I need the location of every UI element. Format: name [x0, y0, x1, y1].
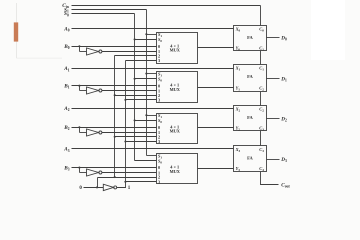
wire B3 branch down to inverter — [79, 168, 81, 173]
svg-text:A1: A1 — [63, 66, 69, 72]
wire into inverter U2 — [80, 90, 87, 92]
full adder FA1 — [234, 65, 267, 92]
wire into inverter U4 — [80, 172, 87, 174]
wire S1 tap to MUX2 — [147, 73, 157, 75]
wire sum output D2 — [267, 118, 280, 120]
wire B0 branch down to inverter — [79, 47, 81, 52]
junction 1-bus / MUX2 — [124, 99, 126, 101]
wire 0-bus tap to MUX1 input 2 — [115, 55, 157, 57]
white panel top right — [311, 0, 345, 60]
wire 1-bus tap to MUX3 input 3 — [126, 141, 157, 143]
mux M1 4x1 MUX — [157, 32, 198, 64]
wire A3 to FA3 X input — [72, 148, 234, 150]
svg-text:C0: C0 — [259, 27, 264, 33]
wire carry C3 FA2 to FA3 — [260, 131, 262, 146]
wire inverter out up to 1-bus — [117, 182, 126, 188]
wire sum output D1 — [267, 78, 280, 80]
junction 0-bus / MUX2 — [114, 94, 116, 96]
wire 1-bus tap to MUX1 input 3 — [126, 60, 157, 62]
inverter U1 (B0') — [87, 48, 102, 55]
svg-text:0: 0 — [79, 186, 82, 191]
wire S1 tap to MUX3 — [147, 115, 157, 117]
svg-text:X3: X3 — [235, 147, 241, 153]
svg-text:X1: X1 — [235, 66, 241, 72]
wire B2 to MUX3 input 0 — [72, 127, 157, 129]
wire B2' to MUX3 input 1 — [102, 132, 157, 134]
wire S0 bus vertical — [134, 14, 136, 161]
wire Cin vertical to FA1 carry-in — [260, 6, 262, 26]
wire MUX1 output to FA0 Y input — [198, 47, 234, 49]
svg-text:C1: C1 — [259, 66, 264, 72]
svg-text:S0: S0 — [158, 118, 162, 124]
wire sum output D3 — [267, 159, 280, 161]
wire B0' to MUX1 input 1 — [102, 51, 157, 53]
svg-text:B2: B2 — [63, 125, 69, 131]
wire S0 tap to MUX1 — [135, 39, 157, 41]
wire A1 to FA1 X input — [72, 68, 234, 70]
wire S1 bus vertical — [146, 10, 148, 156]
wire 0 branch up to MUX4 row — [97, 178, 99, 188]
svg-text:S0: S0 — [158, 37, 162, 43]
svg-text:FA: FA — [247, 35, 253, 40]
wire 0-bus tap to MUX4 input 2 — [98, 177, 157, 179]
svg-text:3: 3 — [158, 179, 160, 184]
wire S1 horizontal — [72, 9, 147, 11]
svg-text:D1: D1 — [280, 77, 287, 83]
svg-text:3: 3 — [158, 98, 160, 103]
inverter U3 (B2') — [87, 129, 102, 136]
svg-text:MUX: MUX — [170, 169, 181, 174]
inverter U5 (makes constant 1) — [103, 184, 116, 190]
svg-text:X2: X2 — [235, 106, 241, 112]
wire carry C2 FA1 to FA2 — [260, 92, 262, 106]
wire into inverter U3 — [80, 132, 87, 134]
wire B1 to MUX2 input 0 — [72, 85, 157, 87]
wire 0-bus tap to MUX2 input 2 — [115, 95, 157, 97]
svg-text:FA: FA — [247, 74, 253, 79]
junction S0 bus / MUX2 — [134, 78, 136, 80]
svg-text:FA: FA — [247, 156, 253, 161]
svg-text:B1: B1 — [63, 84, 69, 90]
svg-text:3: 3 — [158, 58, 160, 63]
svg-text:MUX: MUX — [170, 48, 181, 53]
wire S0 tap to MUX4 — [135, 160, 157, 162]
wire A0 to FA0 X input — [72, 28, 234, 30]
svg-text:3: 3 — [158, 139, 160, 144]
wire S0 horizontal — [72, 13, 135, 15]
svg-text:Y1: Y1 — [236, 85, 241, 91]
svg-text:MUX: MUX — [170, 129, 181, 134]
orange highlight bar — [14, 22, 18, 41]
svg-text:1: 1 — [128, 186, 131, 191]
wire 0-bus vertical — [114, 56, 116, 178]
junction B2 branch — [78, 126, 80, 128]
svg-text:X0: X0 — [235, 27, 241, 33]
wire carry out C4 — [261, 172, 279, 185]
svg-text:S0: S0 — [158, 159, 162, 165]
svg-text:B3: B3 — [63, 165, 69, 171]
svg-text:D3: D3 — [280, 157, 287, 163]
svg-text:S0: S0 — [158, 77, 162, 83]
junction S1 bus / MUX2 — [145, 73, 147, 75]
svg-text:A3: A3 — [63, 147, 69, 153]
svg-text:C2: C2 — [259, 85, 264, 91]
full adder FA0 — [234, 26, 267, 52]
full adder FA2 — [234, 106, 267, 132]
wire S0 tap to MUX3 — [135, 120, 157, 122]
wire into inverter U1 — [80, 51, 87, 53]
junction S1 bus / MUX3 — [145, 114, 147, 116]
wire sum output D0 — [267, 37, 280, 39]
wire 0-bus tap to MUX3 input 2 — [115, 136, 157, 138]
wire B3' to MUX4 input 1 — [102, 172, 157, 174]
svg-text:C3: C3 — [259, 147, 264, 153]
svg-text:D0: D0 — [280, 35, 287, 41]
wire carry C1 FA0 to FA1 — [260, 51, 262, 65]
wire MUX2 output to FA1 Y input — [198, 87, 234, 89]
wire MUX3 output to FA2 Y input — [198, 127, 234, 129]
wire S0 tap to MUX2 — [135, 78, 157, 80]
junction S0 bus / MUX3 — [134, 119, 136, 121]
wire 1-bus tap to MUX2 input 3 — [126, 99, 157, 101]
wire MUX4 output to FA3 Y input — [198, 168, 234, 170]
wire B1 branch down to inverter — [79, 86, 81, 91]
junction B3 branch — [78, 167, 80, 169]
wire 0 into inverter — [84, 187, 104, 189]
mux M4 4x1 MUX — [157, 153, 198, 184]
wire S1 tap to MUX1 — [147, 34, 157, 36]
junction S1 bus / MUX1 — [145, 33, 147, 35]
junction 0-bus bottom tee — [114, 176, 116, 178]
wire B0 to MUX1 input 0 — [72, 46, 157, 48]
junction 1-bus bottom tee — [124, 181, 126, 183]
wire 1-bus vertical — [125, 61, 127, 182]
svg-text:MUX: MUX — [170, 87, 181, 92]
inverter U2 (B1') — [87, 87, 102, 94]
mux M2 4x1 MUX — [157, 71, 198, 102]
mux M3 4x1 MUX — [157, 113, 198, 144]
svg-text:C2: C2 — [259, 106, 264, 112]
svg-text:FA: FA — [247, 115, 253, 120]
junction 0-bus / MUX3 — [114, 136, 116, 138]
junction 1-bus / MUX3 — [124, 140, 126, 142]
svg-text:Cout: Cout — [281, 183, 290, 189]
wire 1-bus tap to MUX4 input 3 — [126, 181, 157, 183]
wire B1' to MUX2 input 1 — [102, 90, 157, 92]
junction S0 bus / MUX1 — [134, 38, 136, 40]
svg-text:D2: D2 — [280, 117, 287, 123]
faint page rule vertical — [15, 3, 17, 58]
junction B0 branch — [78, 45, 80, 47]
wire Cin horizontal — [72, 5, 261, 7]
junction 0 line branch — [96, 186, 98, 188]
faint page rule horizontal — [16, 57, 62, 59]
wire A2 to FA2 X input — [72, 108, 234, 110]
junction B1 branch — [78, 85, 80, 87]
wire S1 tap to MUX4 — [147, 155, 157, 157]
svg-text:A0: A0 — [63, 27, 69, 33]
wire B2 branch down to inverter — [79, 128, 81, 133]
svg-text:A2: A2 — [63, 106, 69, 112]
full adder FA3 — [234, 146, 267, 173]
svg-text:B0: B0 — [63, 44, 69, 50]
wire B3 to MUX4 input 0 — [72, 167, 157, 169]
inverter U4 (B3') — [87, 169, 102, 176]
